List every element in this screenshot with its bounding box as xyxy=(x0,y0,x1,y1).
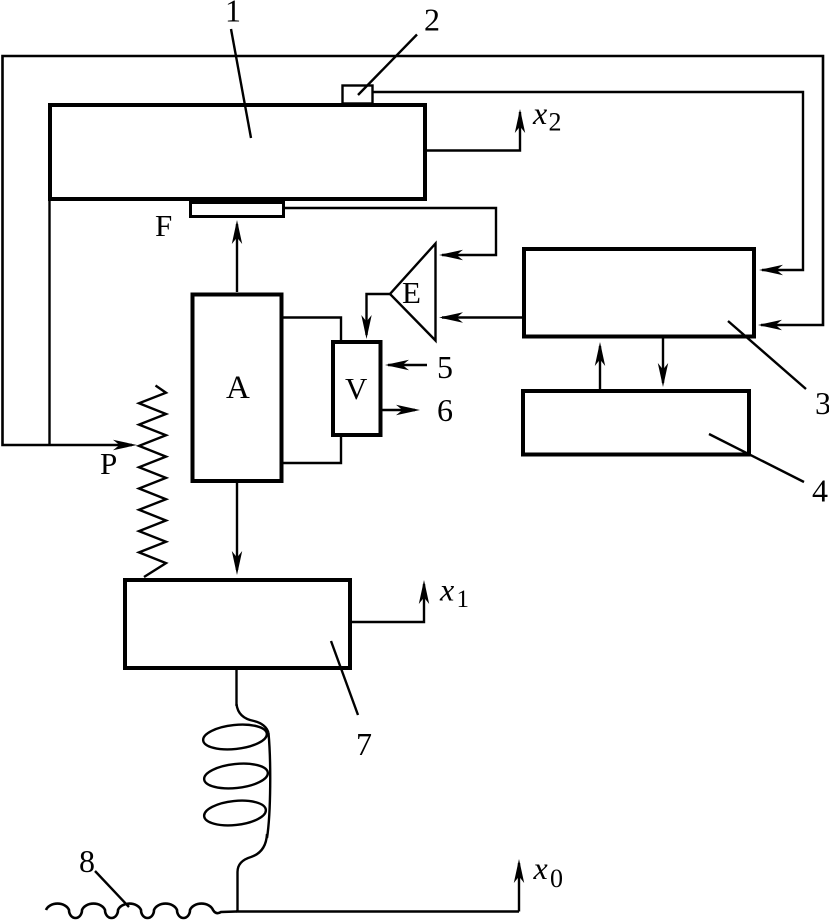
svg-text:8: 8 xyxy=(79,843,95,879)
svg-text:7: 7 xyxy=(356,726,372,762)
svg-text:P: P xyxy=(100,446,117,481)
svg-text:0: 0 xyxy=(550,864,563,893)
svg-text:x: x xyxy=(439,572,454,608)
svg-text:3: 3 xyxy=(815,385,829,421)
svg-text:V: V xyxy=(345,371,368,406)
svg-text:x: x xyxy=(532,95,547,131)
svg-text:F: F xyxy=(155,208,172,243)
svg-text:x: x xyxy=(533,850,548,886)
svg-text:A: A xyxy=(226,370,250,406)
svg-text:2: 2 xyxy=(549,108,562,137)
svg-text:1: 1 xyxy=(225,0,241,29)
svg-text:E: E xyxy=(402,275,421,310)
svg-text:5: 5 xyxy=(437,349,453,385)
svg-text:1: 1 xyxy=(457,586,470,613)
svg-text:4: 4 xyxy=(812,473,828,509)
svg-text:2: 2 xyxy=(424,2,440,38)
svg-text:6: 6 xyxy=(437,392,453,428)
